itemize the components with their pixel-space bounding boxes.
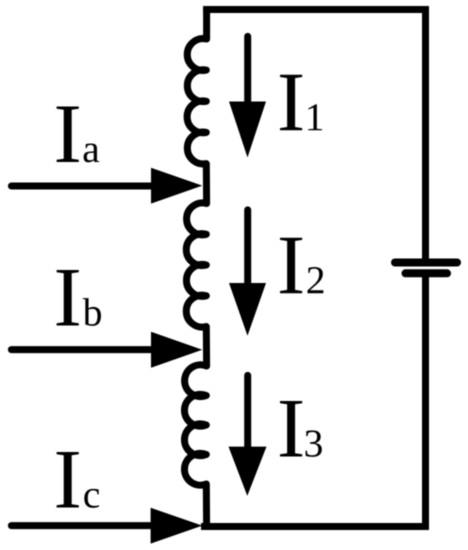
arrow I1 shaft — [244, 36, 251, 107]
arrow Ib head — [151, 332, 202, 368]
label I3 — [280, 401, 322, 457]
label Ia — [57, 107, 100, 163]
label I2 — [280, 238, 323, 293]
label Ic — [57, 452, 100, 508]
wire right upper — [422, 6, 429, 264]
wire right lower — [422, 272, 429, 527]
arrow Ic shaft — [11, 522, 156, 529]
inductor winding L — [184, 6, 206, 527]
wire top — [203, 6, 425, 13]
arrow I1 head — [229, 102, 266, 158]
arrow I2 shaft — [244, 210, 251, 288]
arrow Ia head — [151, 168, 202, 204]
label Ib — [57, 270, 101, 326]
arrow Ib shaft — [11, 346, 156, 353]
arrow I3 shaft — [244, 375, 251, 451]
battery plate long (top) — [395, 259, 457, 267]
arrow I3 head — [229, 447, 267, 496]
wire bottom — [201, 523, 429, 530]
arrow I2 head — [229, 283, 266, 336]
battery plate short (bottom) — [406, 269, 448, 277]
arrow Ia shaft — [11, 183, 156, 190]
label I1 — [280, 75, 322, 130]
arrow Ic head — [151, 508, 203, 544]
